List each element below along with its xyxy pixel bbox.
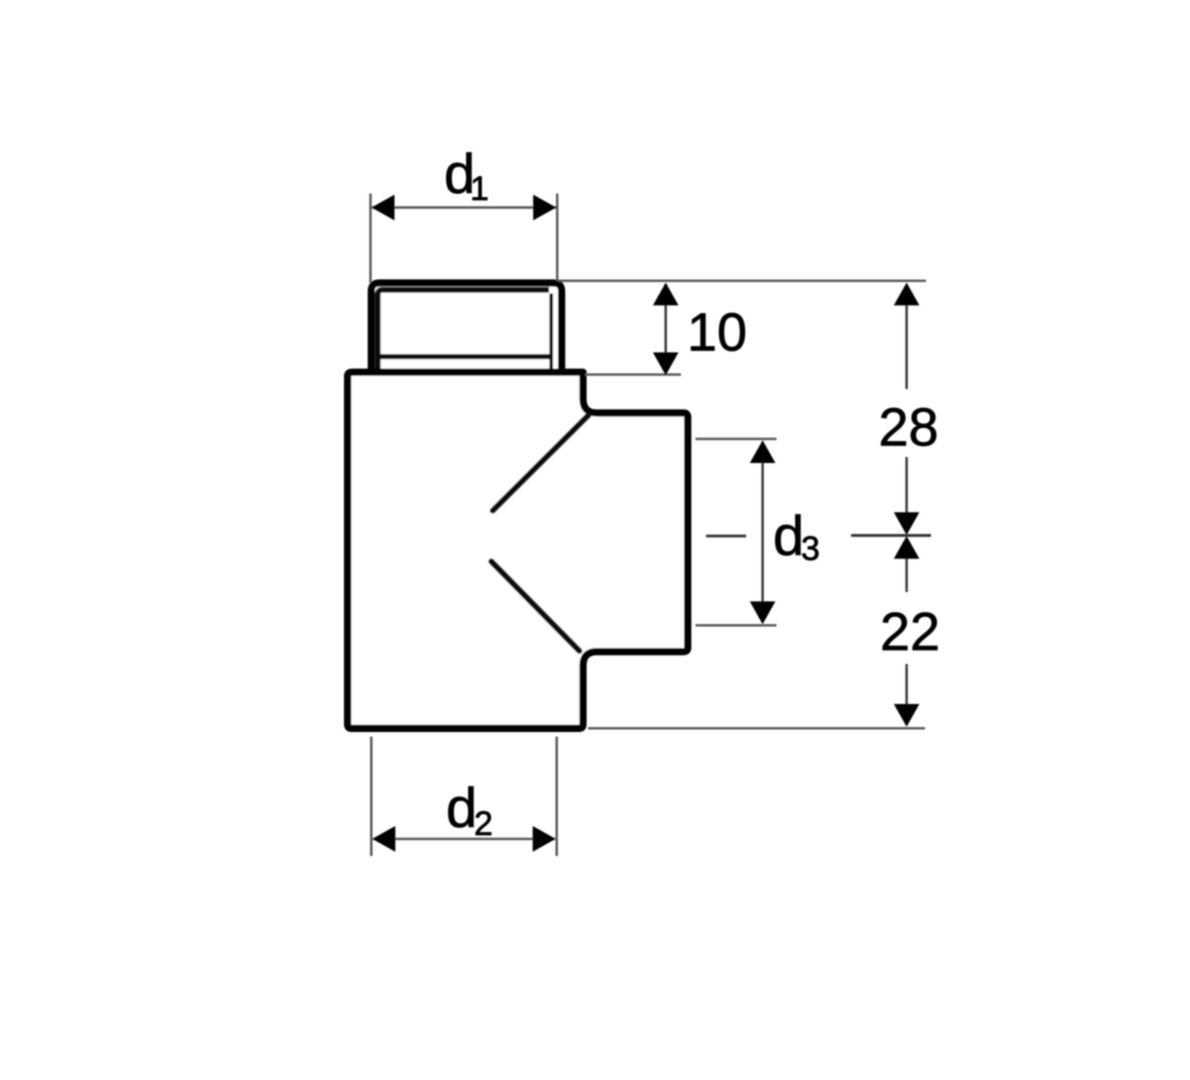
svg-text:10: 10	[687, 303, 747, 363]
arrow down to center tick	[894, 512, 920, 535]
arrow up from center tick	[894, 536, 920, 559]
d3 top extension line	[696, 438, 777, 440]
svg-text:d: d	[446, 776, 477, 839]
d3 arrow down	[750, 601, 776, 624]
fitting body outline	[348, 372, 688, 728]
svg-text:2: 2	[474, 805, 493, 843]
d3 dimension line	[761, 442, 763, 622]
d2 dimension line	[373, 838, 555, 840]
svg-text:1: 1	[470, 170, 489, 208]
d1 dimension line	[372, 206, 556, 208]
svg-text:28: 28	[878, 398, 938, 458]
d1 extension line left	[369, 194, 371, 284]
dim 10 line	[665, 284, 667, 374]
upper chamfer diagonal	[493, 415, 589, 510]
dim 10 arrow down	[653, 352, 679, 375]
branch centerline dash left	[706, 535, 746, 538]
d1 arrow right	[533, 195, 556, 221]
right dimension line lower (22)	[905, 539, 907, 592]
top extension line from spigot	[559, 280, 927, 282]
d2 arrow left	[372, 826, 395, 852]
d1 extension line right	[556, 194, 558, 282]
branch centerline dash right	[853, 534, 931, 537]
right dimension line upper (28)	[905, 288, 907, 389]
body top extension line	[585, 373, 681, 375]
lower chamfer diagonal	[491, 561, 579, 650]
dim 10 arrow up	[653, 283, 679, 306]
spigot inner bottom line	[376, 354, 554, 359]
d1 arrow left	[372, 195, 395, 221]
svg-text:22: 22	[880, 602, 940, 662]
svg-text:d: d	[773, 504, 804, 567]
spigot socket inner contour right	[549, 294, 553, 373]
arrow down at bottom	[894, 704, 920, 727]
d3 bottom extension line	[696, 624, 777, 626]
arrow up at top	[894, 283, 920, 306]
center tick line	[851, 534, 931, 537]
d3 arrow up	[750, 440, 776, 463]
spigot socket inner contour left-top	[378, 290, 549, 372]
bottom extension line	[588, 727, 925, 729]
svg-text:3: 3	[801, 530, 820, 568]
d2 arrow right	[533, 826, 556, 852]
d2 extension line right	[556, 737, 558, 856]
spigot socket outer contour	[371, 283, 561, 372]
d2 extension line left	[370, 737, 372, 856]
